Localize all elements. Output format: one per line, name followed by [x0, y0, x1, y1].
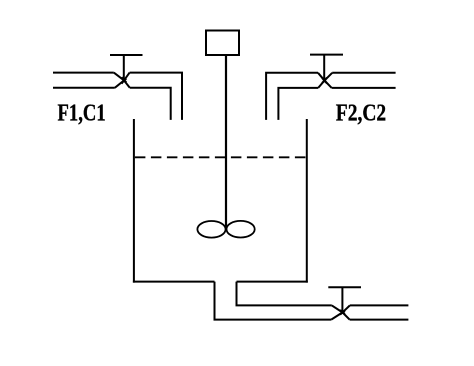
svg-text:F1,C1: F1,C1	[58, 101, 106, 127]
svg-text:F2,C2: F2,C2	[336, 101, 386, 127]
